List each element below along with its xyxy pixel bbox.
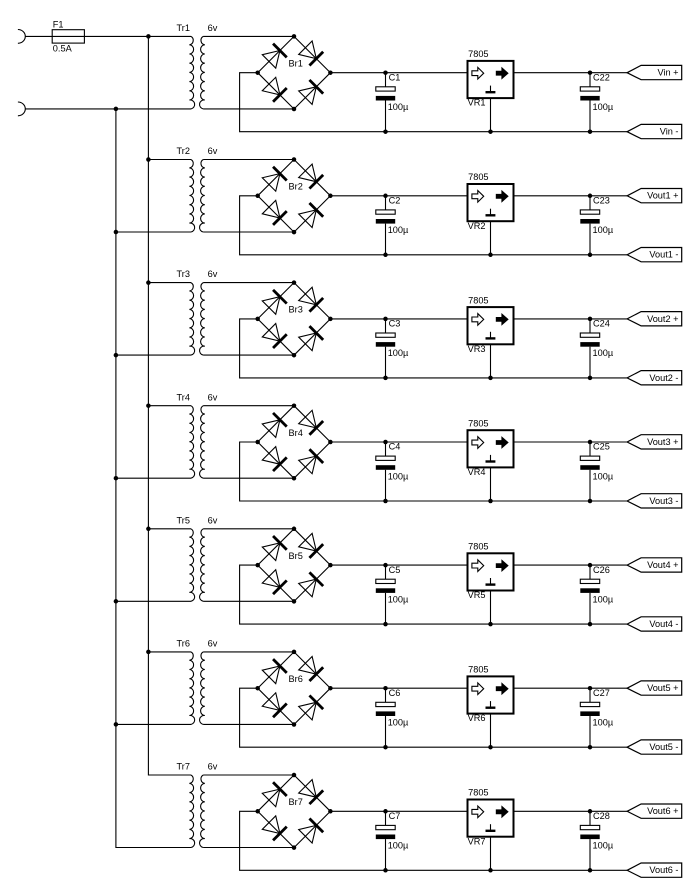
svg-text:Br5: Br5 <box>289 551 303 561</box>
wire: positive rail, regulator to terminal <box>514 810 628 812</box>
wire: Tr1 secondary bottom to bridge <box>203 108 294 110</box>
svg-text:C6: C6 <box>389 688 401 698</box>
svg-text:Tr6: Tr6 <box>177 639 190 649</box>
output terminal Vin + <box>627 65 682 79</box>
svg-text:VR6: VR6 <box>468 713 486 723</box>
junction: live bus tap row 3 <box>146 280 151 285</box>
svg-text:Vout4 -: Vout4 - <box>649 619 678 629</box>
wire: negative rail <box>240 811 627 870</box>
wire: bus to Tr3 primary top <box>148 282 191 284</box>
wire: positive rail, bridge to regulator <box>330 318 467 320</box>
svg-text:Vout6 -: Vout6 - <box>649 865 678 875</box>
wire: positive rail, regulator to terminal <box>514 318 628 320</box>
svg-text:6v: 6v <box>208 762 218 772</box>
transformer Tr3 <box>189 283 204 356</box>
output terminal Vout4 + <box>627 558 682 572</box>
capacitor C4 <box>376 440 395 504</box>
output terminal Vout3 - <box>627 494 682 508</box>
AC input connector J1 (top) <box>18 30 25 44</box>
wire: Tr5 secondary bottom to bridge <box>203 600 294 602</box>
voltage regulator VR4 7805 <box>468 430 514 503</box>
svg-text:Tr4: Tr4 <box>177 392 190 402</box>
wire: Tr2 secondary top to bridge <box>203 159 294 161</box>
svg-text:VR4: VR4 <box>468 467 486 477</box>
wire: connector to fuse to transformer Tr1 primary top <box>25 35 191 37</box>
wire: Tr3 secondary bottom to bridge <box>203 354 294 356</box>
voltage regulator VR3 7805 <box>468 307 514 380</box>
wire: bus to Tr3 primary bottom <box>116 354 191 356</box>
wire: bus to Tr5 primary bottom <box>116 600 191 602</box>
svg-text:Br2: Br2 <box>289 182 303 192</box>
svg-text:Vout6 +: Vout6 + <box>647 806 678 816</box>
bridge rectifier Br4 <box>255 403 332 480</box>
transformer Tr1 <box>189 36 204 109</box>
bridge rectifier Br6 <box>255 650 332 727</box>
bridge rectifier Br2 <box>255 157 332 234</box>
junction: live bus tap row 6 <box>146 650 151 655</box>
svg-text:Vout2 -: Vout2 - <box>649 373 678 383</box>
bridge rectifier Br1 <box>255 34 332 111</box>
output terminal Vout1 + <box>627 189 682 203</box>
wire: Tr6 secondary top to bridge <box>203 651 294 653</box>
wire: bus to Tr5 primary top <box>148 528 191 530</box>
svg-text:100µ: 100µ <box>593 718 614 728</box>
svg-text:Vout1 +: Vout1 + <box>647 191 678 201</box>
wire: positive rail, bridge to regulator <box>330 195 467 197</box>
svg-text:C28: C28 <box>593 811 610 821</box>
svg-text:100µ: 100µ <box>388 594 409 604</box>
transformer Tr4 <box>189 406 204 479</box>
svg-text:100µ: 100µ <box>388 348 409 358</box>
wire: negative rail <box>240 73 627 132</box>
output terminal Vout5 + <box>627 681 682 695</box>
junction: neutral bus tap row 6 <box>114 722 119 727</box>
wire: positive rail, regulator to terminal <box>514 687 628 689</box>
bridge rectifier Br5 <box>255 527 332 604</box>
svg-text:7805: 7805 <box>468 665 488 675</box>
wire: negative rail <box>240 688 627 747</box>
fuse F1 <box>52 30 84 43</box>
svg-text:100µ: 100µ <box>593 102 614 112</box>
wire: bus to Tr2 primary top <box>148 159 191 161</box>
bridge rectifier Br3 <box>255 280 332 357</box>
output terminal Vout5 - <box>627 740 682 754</box>
capacitor C2 <box>376 194 395 257</box>
svg-text:C1: C1 <box>389 72 401 82</box>
svg-text:C24: C24 <box>593 319 610 329</box>
svg-text:Br7: Br7 <box>289 797 303 807</box>
wire: negative rail <box>240 319 627 378</box>
svg-text:100µ: 100µ <box>388 718 409 728</box>
svg-text:Tr1: Tr1 <box>177 23 190 33</box>
junction: neutral bus tap row 5 <box>114 599 119 604</box>
junction: neutral bus tap row 2 <box>114 230 119 235</box>
svg-text:0.5A: 0.5A <box>53 44 73 54</box>
voltage regulator VR1 7805 <box>468 61 514 134</box>
voltage regulator VR2 7805 <box>468 184 514 257</box>
capacitor C24 <box>580 317 599 381</box>
wire: live bus (feeds all primary tops) <box>148 36 191 775</box>
wire: Tr5 secondary top to bridge <box>203 528 294 530</box>
output terminal Vout4 - <box>627 617 682 631</box>
wire: Tr6 secondary bottom to bridge <box>203 723 294 725</box>
svg-text:Br4: Br4 <box>289 428 303 438</box>
capacitor C22 <box>580 70 599 134</box>
capacitor C28 <box>580 809 599 873</box>
svg-text:Tr5: Tr5 <box>177 515 190 525</box>
wire: Tr7 secondary top to bridge <box>203 774 294 776</box>
wire: Tr1 secondary top to bridge <box>203 35 294 37</box>
svg-text:Br6: Br6 <box>289 674 303 684</box>
junction: live bus tap row 4 <box>146 403 151 408</box>
svg-text:6v: 6v <box>208 392 218 402</box>
voltage regulator VR6 7805 <box>468 676 514 749</box>
svg-text:6v: 6v <box>208 23 218 33</box>
svg-text:100µ: 100µ <box>593 594 614 604</box>
svg-text:Vout2 +: Vout2 + <box>647 314 678 324</box>
capacitor C1 <box>376 70 395 134</box>
capacitor C3 <box>376 317 395 381</box>
svg-text:Vout3 -: Vout3 - <box>649 496 678 506</box>
svg-text:C25: C25 <box>593 442 610 452</box>
wire: positive rail, regulator to terminal <box>514 564 628 566</box>
svg-text:C5: C5 <box>389 565 401 575</box>
svg-text:C23: C23 <box>593 196 610 206</box>
svg-text:Vin +: Vin + <box>657 68 678 78</box>
svg-text:100µ: 100µ <box>388 102 409 112</box>
svg-text:100µ: 100µ <box>388 225 409 235</box>
capacitor C25 <box>580 440 599 504</box>
svg-text:Tr7: Tr7 <box>177 762 190 772</box>
svg-text:100µ: 100µ <box>388 841 409 851</box>
svg-text:Vout4 +: Vout4 + <box>647 560 678 570</box>
svg-text:Br1: Br1 <box>289 59 303 69</box>
wire: bus to Tr6 primary top <box>148 651 191 653</box>
wire: positive rail, bridge to regulator <box>330 564 467 566</box>
svg-text:6v: 6v <box>208 515 218 525</box>
output terminal Vout6 + <box>627 804 682 818</box>
transformer Tr6 <box>189 652 204 725</box>
svg-text:6v: 6v <box>208 269 218 279</box>
output terminal Vin - <box>627 124 682 138</box>
svg-text:7805: 7805 <box>468 542 488 552</box>
svg-text:VR7: VR7 <box>468 836 486 846</box>
svg-text:C27: C27 <box>593 688 610 698</box>
svg-text:VR3: VR3 <box>468 344 486 354</box>
svg-text:7805: 7805 <box>468 418 488 428</box>
junction: neutral bus tap row 4 <box>114 476 119 481</box>
wire: bus to Tr6 primary bottom <box>116 723 191 725</box>
junction: live bus tap row 2 <box>146 157 151 162</box>
capacitor C26 <box>580 563 599 627</box>
svg-text:Vout5 +: Vout5 + <box>647 683 678 693</box>
wire: Tr7 secondary bottom to bridge <box>203 847 294 849</box>
wire: Tr4 secondary bottom to bridge <box>203 477 294 479</box>
wire: positive rail, bridge to regulator <box>330 810 467 812</box>
wire: bus to Tr4 primary top <box>148 405 191 407</box>
bridge rectifier Br7 <box>255 773 332 850</box>
capacitor C7 <box>376 809 395 873</box>
wire: bus to Tr2 primary bottom <box>116 231 191 233</box>
svg-text:F1: F1 <box>53 20 64 30</box>
svg-text:Tr3: Tr3 <box>177 269 190 279</box>
output terminal Vout6 - <box>627 863 682 877</box>
transformer Tr2 <box>189 160 204 233</box>
svg-text:7805: 7805 <box>468 172 488 182</box>
svg-text:VR1: VR1 <box>468 98 486 108</box>
wire: positive rail, bridge to regulator <box>330 687 467 689</box>
voltage regulator VR5 7805 <box>468 553 514 626</box>
wire: Tr2 secondary bottom to bridge <box>203 231 294 233</box>
wire: connector J2 to transformer Tr1 primary bottom <box>25 108 191 110</box>
svg-text:C22: C22 <box>593 72 610 82</box>
voltage regulator VR7 7805 <box>468 800 514 873</box>
output terminal Vout1 - <box>627 248 682 262</box>
wire: negative rail <box>240 442 627 501</box>
transformer Tr5 <box>189 529 204 602</box>
svg-text:6v: 6v <box>208 146 218 156</box>
svg-text:C26: C26 <box>593 565 610 575</box>
svg-text:Br3: Br3 <box>289 305 303 315</box>
svg-text:Vout3 +: Vout3 + <box>647 437 678 447</box>
wire: positive rail, regulator to terminal <box>514 72 628 74</box>
svg-text:100µ: 100µ <box>388 471 409 481</box>
output terminal Vout2 + <box>627 312 682 326</box>
capacitor C23 <box>580 194 599 257</box>
output terminal Vout2 - <box>627 371 682 385</box>
junction: neutral bus tap row 1 <box>114 107 119 112</box>
svg-text:C3: C3 <box>389 319 401 329</box>
wire: negative rail <box>240 196 627 255</box>
svg-text:7805: 7805 <box>468 788 488 798</box>
wire: negative rail <box>240 565 627 624</box>
svg-text:Vin -: Vin - <box>660 127 679 137</box>
svg-text:Vout5 -: Vout5 - <box>649 742 678 752</box>
svg-text:100µ: 100µ <box>593 471 614 481</box>
junction: live bus tap row 5 <box>146 527 151 532</box>
wire: Tr3 secondary top to bridge <box>203 282 294 284</box>
svg-text:100µ: 100µ <box>593 348 614 358</box>
AC input connector J2 (bottom) <box>18 102 25 116</box>
wire: positive rail, bridge to regulator <box>330 441 467 443</box>
svg-text:C2: C2 <box>389 196 401 206</box>
junction: neutral bus tap row 3 <box>114 353 119 358</box>
capacitor C6 <box>376 686 395 750</box>
wire: positive rail, regulator to terminal <box>514 441 628 443</box>
svg-text:VR2: VR2 <box>468 221 486 231</box>
svg-text:6v: 6v <box>208 639 218 649</box>
junction: live bus tap row 1 <box>146 34 151 39</box>
capacitor C27 <box>580 686 599 750</box>
svg-text:C7: C7 <box>389 811 401 821</box>
wire: Tr4 secondary top to bridge <box>203 405 294 407</box>
svg-text:VR5: VR5 <box>468 590 486 600</box>
wire: positive rail, regulator to terminal <box>514 195 628 197</box>
svg-text:100µ: 100µ <box>593 225 614 235</box>
output terminal Vout3 + <box>627 435 682 449</box>
wire: bus to Tr4 primary bottom <box>116 477 191 479</box>
svg-text:C4: C4 <box>389 442 401 452</box>
svg-text:100µ: 100µ <box>593 841 614 851</box>
svg-text:Tr2: Tr2 <box>177 146 190 156</box>
wire: neutral bus (feeds all primary bottoms) <box>116 109 191 848</box>
svg-text:7805: 7805 <box>468 295 488 305</box>
capacitor C5 <box>376 563 395 627</box>
svg-text:7805: 7805 <box>468 49 488 59</box>
transformer Tr7 <box>189 775 204 848</box>
svg-text:Vout1 -: Vout1 - <box>649 250 678 260</box>
wire: positive rail, bridge to regulator <box>330 72 467 74</box>
